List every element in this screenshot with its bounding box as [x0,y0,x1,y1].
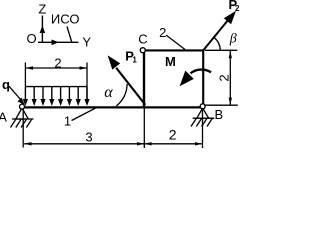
svg-text:2: 2 [235,4,240,13]
svg-text:1: 1 [64,113,71,128]
svg-text:O: O [27,31,37,46]
svg-text:A: A [0,110,7,125]
svg-text:q: q [2,77,10,92]
svg-text:2: 2 [217,74,232,81]
svg-text:α: α [104,84,113,101]
svg-text:ИСО: ИСО [51,12,80,27]
svg-text:Z: Z [38,1,46,16]
svg-text:B: B [214,107,223,122]
svg-text:2: 2 [54,55,61,70]
svg-text:1: 1 [132,56,137,65]
svg-text:3: 3 [85,130,92,145]
svg-text:2: 2 [159,25,166,40]
svg-text:Y: Y [82,35,91,50]
svg-text:β: β [229,32,237,47]
svg-text:C: C [138,32,147,47]
svg-text:2: 2 [169,127,177,143]
svg-text:M: M [165,54,176,69]
